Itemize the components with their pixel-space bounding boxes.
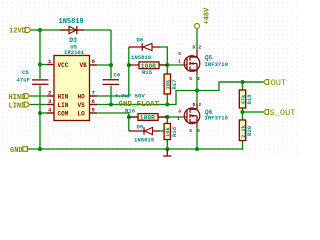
- wire LO row: [90, 113, 138, 117]
- svg-text:R18: R18: [171, 126, 178, 137]
- hier label S_OUT: [263, 110, 268, 115]
- diode D9: [129, 130, 160, 132]
- diode D3: [60, 29, 84, 31]
- svg-text:S: S: [189, 76, 192, 82]
- wire LIND to pin3: [30, 104, 54, 106]
- svg-text:3: 3: [197, 128, 200, 134]
- wire gate row Q5: [159, 64, 187, 66]
- junction VS / C6 bottom: [109, 103, 113, 107]
- wire D9 right vertical: [160, 117, 167, 131]
- svg-text:GND: GND: [10, 147, 23, 155]
- svg-text:G: G: [179, 108, 182, 114]
- junction Q6 gate node: [165, 115, 169, 119]
- svg-text:IRF3710: IRF3710: [205, 61, 229, 68]
- wire Q5 source down: [196, 72, 198, 91]
- svg-text:VB: VB: [80, 62, 88, 69]
- wire +48V drop: [196, 29, 198, 51]
- wire C5 bottom to GND rail: [39, 85, 41, 149]
- svg-text:4.7uF 50V: 4.7uF 50V: [115, 93, 146, 100]
- resistor R16: [129, 116, 168, 118]
- svg-text:D3: D3: [69, 37, 77, 44]
- wire VCC pin1: [40, 64, 54, 66]
- svg-text:47uF: 47uF: [17, 77, 31, 84]
- wire 12V down column: [39, 30, 41, 79]
- svg-text:1: 1: [177, 116, 180, 122]
- mosfet Q5: [178, 45, 229, 82]
- svg-text:IRF3710: IRF3710: [205, 115, 229, 122]
- wire R17 leads: [166, 65, 168, 105]
- wire drop to VB: [110, 30, 112, 65]
- svg-text:2: 2: [198, 45, 201, 51]
- wire R18 leads: [166, 117, 168, 149]
- wire C6 bottom: [110, 86, 112, 105]
- junction HO / D8 / R15 left: [127, 63, 131, 67]
- capacitor C5: [32, 80, 48, 84]
- svg-text:+48V: +48V: [204, 7, 212, 25]
- wire VB pin8: [90, 64, 111, 66]
- svg-text:D: D: [193, 45, 196, 51]
- svg-text:VS: VS: [78, 102, 86, 109]
- IC U5 IR2101 body: [54, 56, 90, 121]
- hier label OUT: [263, 80, 268, 85]
- wire C6 link VB to VS: [110, 65, 112, 79]
- svg-text:GND_FLOAT: GND_FLOAT: [119, 101, 160, 109]
- svg-text:1N5819: 1N5819: [59, 18, 84, 26]
- wire D9 left vertical: [128, 117, 130, 131]
- svg-text:R15: R15: [142, 69, 153, 76]
- svg-text:1N5819: 1N5819: [131, 54, 152, 61]
- wire VS GND_FLOAT rail: [90, 82, 263, 105]
- pin numbers: [48, 58, 96, 114]
- svg-text:R17: R17: [171, 79, 178, 89]
- svg-text:OUT: OUT: [271, 78, 286, 88]
- junction 12V rail / C5 branch: [38, 28, 42, 32]
- junction LO / D9 / R16 left: [127, 115, 131, 119]
- wire D8 right vertical: [160, 47, 167, 65]
- svg-text:7: 7: [92, 90, 95, 97]
- resistor R15: [129, 64, 168, 66]
- wire S_OUT row: [243, 111, 264, 113]
- resistor R20: [239, 120, 245, 141]
- IC pins: [47, 65, 97, 114]
- svg-text:S_OUT: S_OUT: [270, 108, 296, 118]
- junction COM node: [38, 111, 42, 115]
- wire R20 leads: [242, 112, 244, 149]
- svg-text:LO: LO: [78, 110, 86, 117]
- svg-text:HIND: HIND: [9, 94, 26, 102]
- svg-text:D8: D8: [137, 37, 144, 44]
- junction Q6 source / GND rail: [195, 147, 199, 151]
- svg-text:D9: D9: [137, 124, 144, 131]
- diode D8: [129, 46, 160, 48]
- svg-text:R19: R19: [246, 94, 253, 105]
- junction R18 bottom / GND rail: [165, 147, 169, 151]
- svg-text:100R: 100R: [140, 115, 155, 122]
- svg-text:VCC: VCC: [58, 62, 69, 69]
- junction R17 bottom / GND_FLOAT: [165, 103, 169, 107]
- wire Q6 source to GND: [196, 125, 198, 150]
- svg-text:R20: R20: [246, 125, 253, 136]
- junction S_OUT / R19 R20: [241, 110, 245, 114]
- svg-text:1: 1: [178, 59, 181, 65]
- wire Q6 drain up: [196, 91, 198, 106]
- svg-text:D: D: [193, 102, 196, 108]
- junction OUT / R19 top: [241, 80, 245, 84]
- svg-text:LIND: LIND: [9, 102, 26, 110]
- resistor R17: [164, 74, 170, 94]
- junction VB / C6 top: [109, 63, 113, 67]
- power +48V: [195, 24, 200, 29]
- svg-text:LIN: LIN: [58, 102, 69, 109]
- junction switch node Q5 source: [195, 89, 199, 93]
- wire gate row Q6: [158, 116, 187, 118]
- svg-text:12VD: 12VD: [9, 27, 26, 35]
- resistor R19: [239, 90, 245, 108]
- svg-text:G: G: [178, 51, 181, 57]
- svg-text:HO: HO: [78, 93, 86, 100]
- wire COM pin4: [40, 112, 54, 114]
- svg-text:HIN: HIN: [58, 93, 69, 100]
- svg-text:2: 2: [198, 102, 201, 108]
- svg-text:3: 3: [197, 76, 200, 82]
- pin names: [58, 62, 88, 117]
- svg-text:IR2101: IR2101: [64, 49, 85, 56]
- svg-text:S: S: [189, 128, 192, 134]
- power symbol GND: [163, 149, 171, 156]
- wire OUT row: [219, 81, 263, 83]
- junction Q5 gate node: [165, 63, 169, 67]
- capacitor C6: [103, 80, 119, 85]
- wire HIND to pin2: [30, 95, 54, 97]
- mosfet Q6: [177, 102, 229, 134]
- wire HO net jog up: [90, 47, 129, 96]
- junction GND rail left: [38, 147, 42, 151]
- resistor R18: [164, 124, 170, 140]
- wire R19 leads: [242, 82, 244, 112]
- svg-text:C6: C6: [114, 72, 121, 79]
- svg-text:1N5819: 1N5819: [134, 136, 155, 143]
- svg-text:COM: COM: [58, 110, 69, 117]
- wire 12VD rail: [31, 29, 111, 31]
- wire GND rail: [28, 148, 244, 150]
- junction VCC node: [38, 63, 42, 67]
- svg-text:C5: C5: [22, 69, 29, 76]
